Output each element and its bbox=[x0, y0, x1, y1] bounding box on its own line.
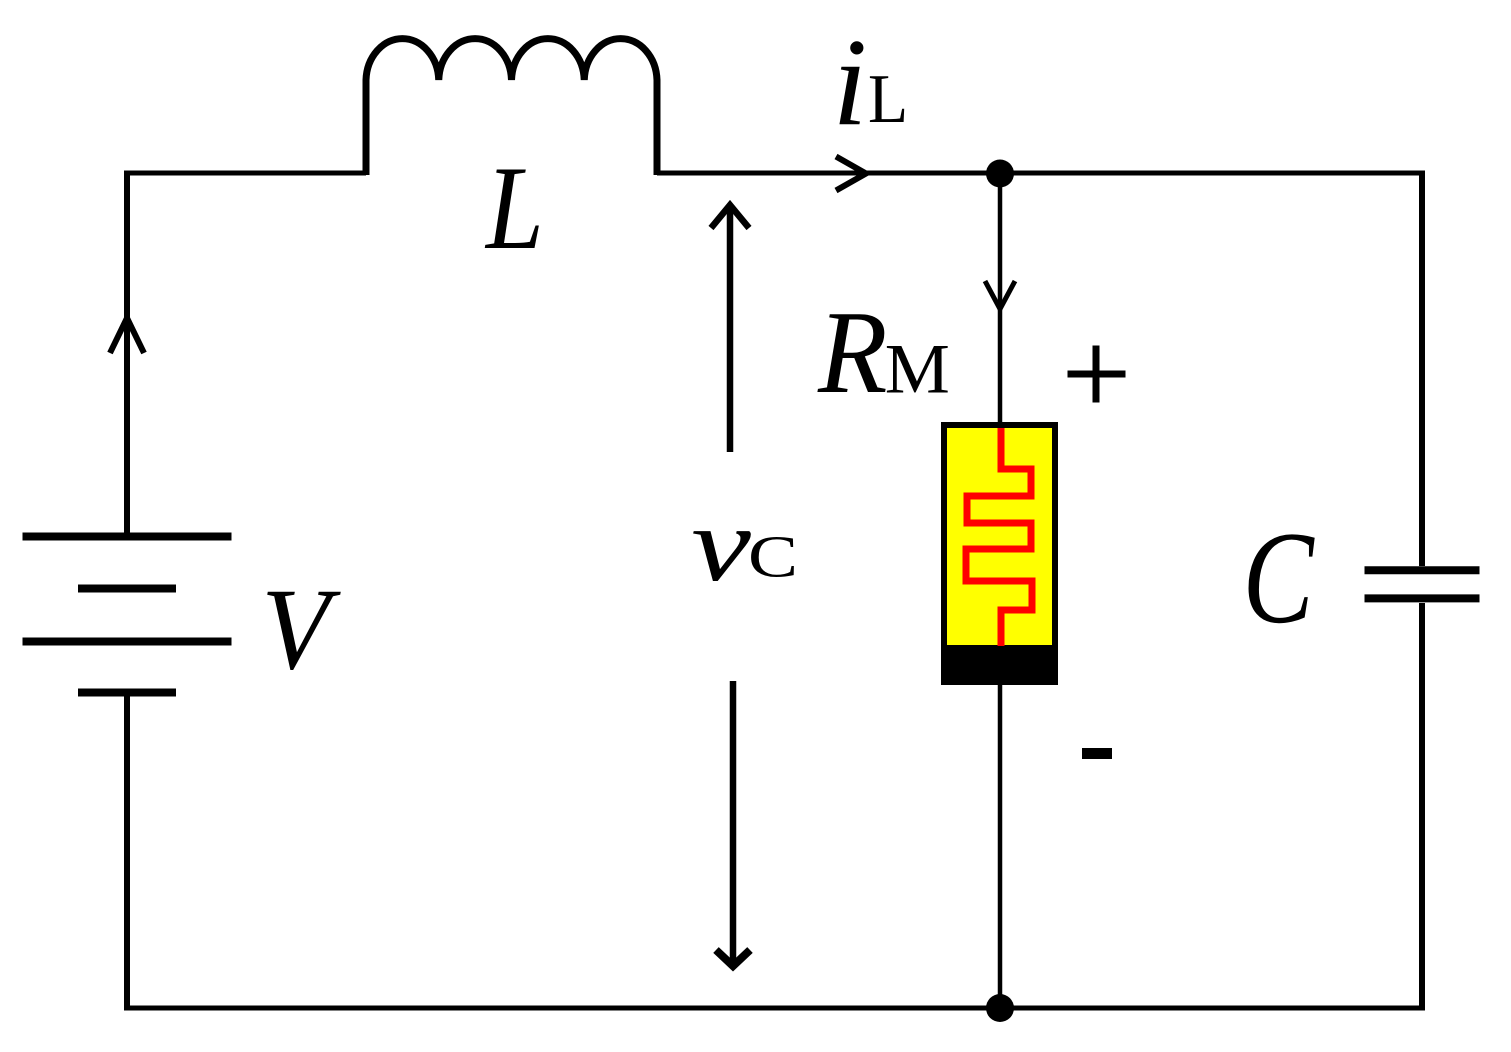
svg-text:L: L bbox=[868, 59, 908, 138]
minus sign bbox=[1082, 748, 1112, 759]
battery label V bbox=[261, 564, 340, 693]
wire right lower bbox=[1419, 603, 1425, 1008]
wire top right bbox=[657, 171, 1422, 176]
battery V bbox=[23, 537, 232, 693]
wire bottom bbox=[124, 1006, 1425, 1011]
capacitor label C bbox=[1243, 504, 1316, 650]
wire left lower bbox=[124, 693, 130, 1009]
svg-text:v: v bbox=[691, 486, 751, 604]
arrow on left wire bbox=[110, 318, 144, 353]
svg-text:C: C bbox=[1243, 504, 1316, 650]
node dot bottom bbox=[986, 994, 1014, 1022]
svg-text:R: R bbox=[817, 287, 887, 419]
label iL bbox=[833, 14, 868, 152]
inductor L bbox=[366, 39, 657, 175]
svg-text:C: C bbox=[748, 524, 798, 590]
voltage arrow vC up bbox=[711, 205, 749, 452]
svg-text:i: i bbox=[833, 14, 868, 152]
label RM bbox=[817, 287, 887, 419]
capacitor C bbox=[1365, 570, 1480, 598]
voltage arrow vC down bbox=[716, 681, 750, 966]
svg-text:L: L bbox=[484, 143, 544, 275]
inductor label L bbox=[484, 143, 544, 275]
memristor RM bbox=[941, 425, 1058, 685]
plus sign bbox=[1068, 346, 1126, 403]
current arrow iL bbox=[836, 157, 866, 191]
wire left upper bbox=[124, 171, 130, 537]
svg-text:M: M bbox=[885, 330, 950, 409]
wire memristor stem upper bbox=[998, 173, 1003, 424]
wire top left bbox=[127, 171, 366, 176]
svg-text:V: V bbox=[261, 564, 340, 693]
node dot top bbox=[986, 160, 1014, 188]
arrow into memristor bbox=[985, 281, 1015, 309]
label vC bbox=[691, 486, 751, 604]
wire right upper bbox=[1419, 171, 1425, 567]
wire memristor stem lower bbox=[998, 683, 1003, 1008]
